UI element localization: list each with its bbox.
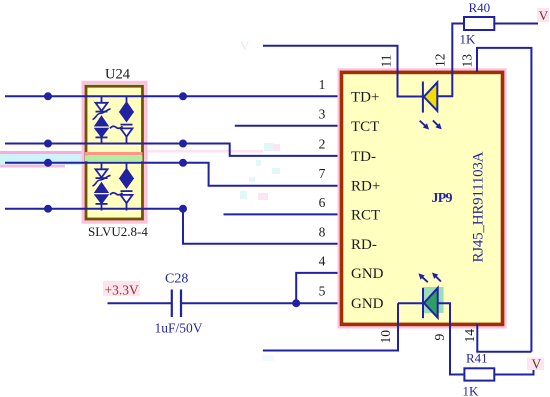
svg-text:U24: U24 [105, 67, 131, 83]
wire pin10 to LED [398, 302, 423, 304]
svg-text:GND: GND [351, 296, 384, 312]
U24 highlight outline [83, 83, 146, 223]
svg-text:12: 12 [433, 54, 448, 68]
svg-text:7: 7 [319, 166, 326, 181]
svg-text:GND: GND [351, 266, 384, 282]
svg-text:1: 1 [319, 77, 326, 92]
wire pin12 to R40 [437, 24, 464, 97]
highlight streak red inside U24 [85, 152, 143, 155]
svg-text:V: V [532, 357, 542, 372]
node dot [44, 92, 52, 100]
svg-text:TD+: TD+ [351, 89, 379, 105]
LED arrows bottom [419, 273, 441, 282]
highlight streak pink underline [0, 165, 65, 168]
highlight streak pink upper [0, 151, 85, 154]
svg-text:TCT: TCT [351, 119, 379, 135]
TVS channel 2 [93, 163, 133, 211]
power +3.3V [103, 281, 140, 296]
svg-text:13: 13 [460, 54, 475, 68]
svg-text:1K: 1K [463, 384, 480, 397]
svg-text:TD-: TD- [351, 149, 376, 165]
highlight streak cyan [0, 154, 85, 165]
wire net4 to RD- [5, 209, 340, 244]
LED green halo [423, 287, 444, 313]
wire pin13 loop right side [477, 48, 531, 352]
LED D-bottom (green) [423, 288, 438, 318]
wire GND pin4 [296, 273, 340, 303]
svg-text:5: 5 [319, 284, 326, 299]
svg-text:C28: C28 [165, 272, 188, 287]
svg-text:RD+: RD+ [351, 179, 380, 195]
TVS box U24 [86, 86, 143, 219]
highlight streak pink right of U24 [141, 150, 263, 153]
wire pin9 to R41 [438, 303, 465, 374]
artifact smudges [240, 143, 280, 361]
RJ45 box JP9 [342, 72, 503, 324]
svg-text:+3.3V: +3.3V [105, 282, 139, 297]
wire pin14 [477, 324, 531, 352]
node dot [179, 159, 187, 167]
node dot [44, 205, 52, 213]
power V bottom [527, 358, 544, 371]
svg-text:RCT: RCT [351, 207, 380, 223]
LED arrows top [420, 120, 441, 128]
wire TD+ row [5, 95, 340, 97]
wire pin10 net [263, 303, 398, 350]
LED D-top (yellow) [423, 82, 437, 113]
pin names [351, 89, 384, 312]
wire net2 to TD- [5, 144, 340, 156]
wire pin11 net [263, 46, 423, 97]
wire TCT stub [235, 125, 340, 127]
JP9 highlight outline [339, 70, 505, 328]
svg-text:3: 3 [319, 106, 326, 121]
wire RCT stub [224, 213, 341, 215]
node dot [179, 92, 187, 100]
svg-text:11: 11 [379, 55, 394, 68]
resistor R41 [464, 368, 494, 380]
resistor R40 [464, 17, 494, 30]
power V top [537, 8, 549, 22]
node dot [179, 205, 187, 213]
svg-text:V: V [539, 8, 549, 23]
svg-text:8: 8 [319, 224, 326, 239]
svg-text:RJ45_HR911103A: RJ45_HR911103A [471, 151, 487, 262]
node dot [292, 299, 300, 307]
svg-text:V: V [240, 38, 250, 53]
node dot [179, 140, 187, 148]
svg-text:R40: R40 [469, 0, 491, 15]
svg-text:R41: R41 [466, 351, 488, 366]
node dot [44, 159, 52, 167]
wire +3.3V to C28 [108, 302, 172, 304]
svg-text:14: 14 [462, 329, 477, 343]
svg-text:1uF/50V: 1uF/50V [155, 321, 203, 336]
node dot [44, 140, 52, 148]
wire net3 to RD+ [5, 163, 340, 186]
wire C28 to GND pin5 [182, 302, 341, 304]
highlight streak green inside U24 [85, 155, 143, 161]
svg-text:6: 6 [319, 195, 326, 210]
wire R41 to V [494, 370, 533, 375]
wire R40 to V [494, 23, 538, 25]
svg-text:JP9: JP9 [432, 191, 453, 206]
svg-text:10: 10 [378, 330, 393, 344]
svg-text:RD-: RD- [351, 237, 377, 253]
TVS channel 1 [93, 96, 133, 144]
pin numbers top/bottom (rotated) [378, 54, 477, 344]
svg-text:2: 2 [319, 136, 326, 151]
svg-text:9: 9 [432, 334, 447, 341]
svg-text:SLVU2.8-4: SLVU2.8-4 [88, 224, 148, 239]
svg-text:4: 4 [319, 253, 326, 268]
pin numbers left [319, 77, 326, 299]
svg-text:1K: 1K [460, 32, 477, 47]
